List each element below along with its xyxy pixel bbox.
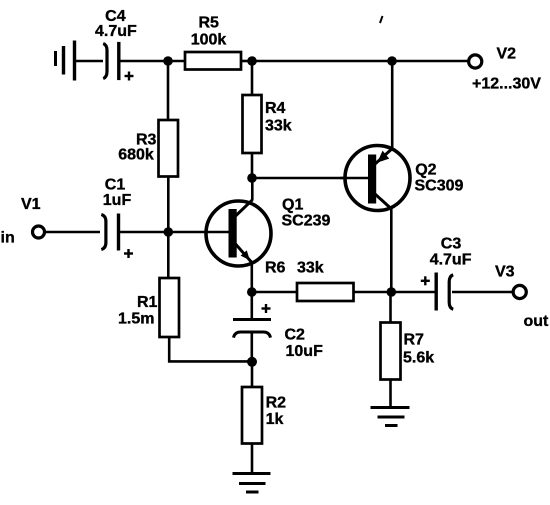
svg-text:4.7uF: 4.7uF <box>95 23 137 40</box>
terminal V2 <box>469 55 482 68</box>
left connector stub plates <box>56 41 75 81</box>
wire node B to node C <box>252 60 392 63</box>
wire C4 to node A <box>119 60 168 63</box>
ground below R2 <box>233 474 271 493</box>
svg-text:R5: R5 <box>198 15 219 32</box>
svg-text:5.6k: 5.6k <box>403 349 434 366</box>
svg-text:in: in <box>1 230 15 247</box>
node E junction <box>164 227 174 237</box>
node H junction <box>247 357 257 367</box>
wire node D to Q2 base <box>252 177 369 180</box>
resistor R3 <box>159 120 179 177</box>
svg-text:1uF: 1uF <box>103 192 132 209</box>
wire Q2 collector to node G <box>390 208 393 292</box>
svg-text:4.7uF: 4.7uF <box>430 252 472 269</box>
wire node F to R6 <box>252 291 297 294</box>
svg-text:C3: C3 <box>441 236 462 253</box>
wire node G to C3 <box>391 291 434 294</box>
svg-text:R7: R7 <box>404 332 425 349</box>
wire R3 to node E <box>167 177 170 233</box>
wire stub to C4 <box>76 60 103 63</box>
wire Q2 emitter to node C <box>391 61 394 149</box>
resistor R1 <box>160 278 180 337</box>
wire C3 to V3 terminal <box>452 291 513 294</box>
svg-text:R2: R2 <box>266 394 287 411</box>
resistor R7 <box>381 323 401 380</box>
capacitor C3 <box>421 273 453 311</box>
node A junction <box>163 56 173 66</box>
transistor Q1 <box>206 200 271 266</box>
resistor R4 <box>243 95 262 153</box>
svg-text:out: out <box>524 313 550 330</box>
wire R1 to node H <box>169 337 252 361</box>
wire R2 to ground <box>251 444 254 474</box>
terminal V3 <box>513 285 526 298</box>
wire Q1 emitter to node F <box>251 262 254 292</box>
node G junction <box>387 287 397 297</box>
wire C2 to node H <box>251 333 254 362</box>
node F junction <box>247 287 257 297</box>
svg-text:10uF: 10uF <box>286 343 324 360</box>
node D junction <box>247 173 257 183</box>
wire R7 to ground <box>389 380 392 408</box>
svg-text:1.5m: 1.5m <box>118 311 154 328</box>
node B junction <box>247 56 257 66</box>
wire Q1 collector to node D <box>251 178 254 201</box>
wire node A to R5 <box>168 60 185 63</box>
transistor Q2 <box>340 146 410 211</box>
resistor R2 <box>242 387 262 444</box>
wire V1 to C1 <box>45 231 101 234</box>
svg-text:+12...30V: +12...30V <box>472 76 541 93</box>
wire node E to Q1 base <box>168 231 229 234</box>
wire node B to R4 <box>251 61 254 95</box>
stray tick mark <box>380 16 383 23</box>
svg-text:C2: C2 <box>285 327 306 344</box>
svg-text:C1: C1 <box>105 176 126 193</box>
wire C1 to node E <box>119 231 169 234</box>
svg-text:R6: R6 <box>265 259 286 276</box>
svg-text:33k: 33k <box>265 117 292 134</box>
svg-text:Q1: Q1 <box>282 196 303 213</box>
svg-text:33k: 33k <box>297 259 324 276</box>
wire R5 to node B <box>241 60 252 63</box>
capacitor C4 <box>103 42 133 81</box>
wire R4 to node D <box>251 153 254 178</box>
svg-text:680k: 680k <box>118 147 154 164</box>
svg-text:V2: V2 <box>497 45 517 62</box>
svg-text:Q2: Q2 <box>415 161 436 178</box>
svg-text:V3: V3 <box>495 264 515 281</box>
resistor R5 <box>185 52 241 70</box>
svg-text:1k: 1k <box>266 411 284 428</box>
svg-text:100k: 100k <box>191 31 227 48</box>
wire node H to R2 <box>251 362 254 387</box>
wire R6 to node G <box>354 291 392 294</box>
svg-text:SC309: SC309 <box>415 178 464 195</box>
wire node A to R3 <box>167 61 170 120</box>
svg-text:SC239: SC239 <box>282 213 331 230</box>
ground below R7 <box>371 408 410 426</box>
svg-text:V1: V1 <box>21 196 41 213</box>
wire node E to R1 <box>167 232 170 278</box>
wire node G to R7 <box>389 292 392 323</box>
node C junction <box>387 56 397 66</box>
svg-text:R1: R1 <box>137 294 158 311</box>
capacitor C2 <box>233 292 271 338</box>
terminal V1 <box>33 226 45 238</box>
wire node C to V2 terminal <box>392 60 469 63</box>
capacitor C1 <box>101 214 133 259</box>
svg-text:R4: R4 <box>265 100 286 117</box>
resistor R6 <box>297 283 354 301</box>
